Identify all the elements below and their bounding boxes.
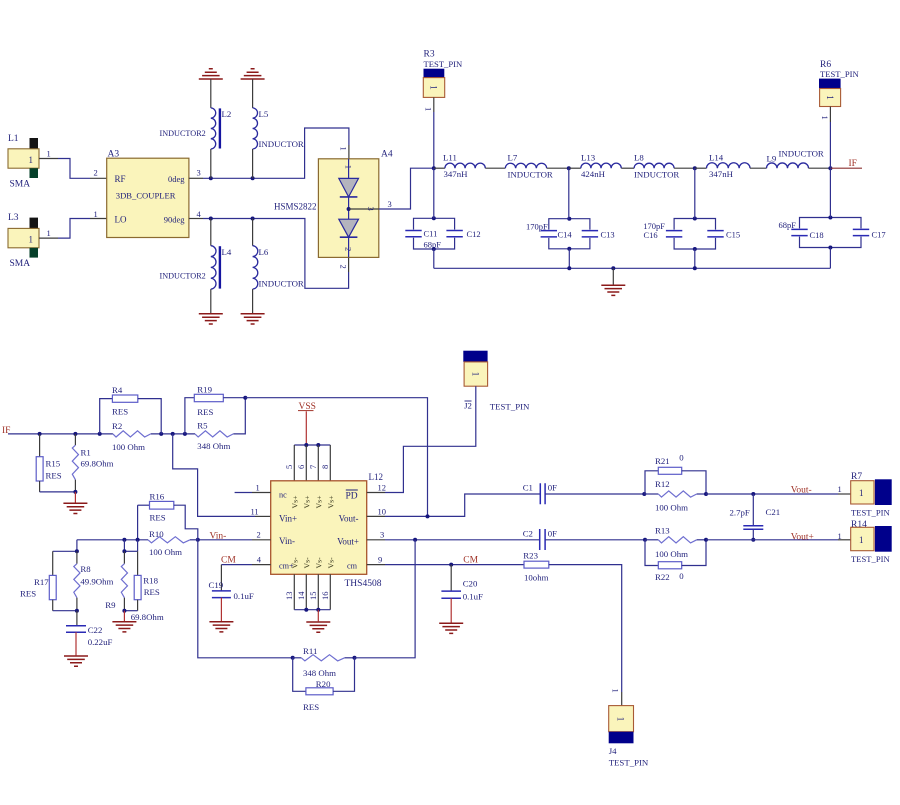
svg-text:1: 1 (615, 717, 625, 722)
pin 1 stub (nc) (235, 482, 271, 492)
inductor L8 INDUCTOR (634, 152, 695, 179)
svg-text:R23: R23 (523, 550, 538, 560)
svg-text:L3: L3 (8, 213, 19, 223)
node R13 right (704, 538, 708, 542)
svg-text:LO: LO (115, 215, 127, 225)
svg-text:7: 7 (308, 465, 318, 469)
svg-text:J2: J2 (464, 401, 472, 411)
svg-text:1: 1 (838, 531, 842, 541)
svg-text:100 Ohm: 100 Ohm (112, 442, 145, 452)
svg-text:R20: R20 (316, 679, 331, 689)
pin 2 wire Vin- (198, 530, 271, 542)
connector L3 (SMA) (8, 213, 39, 269)
ground below C22 (64, 656, 88, 666)
resistor R23 10ohm (523, 550, 549, 582)
svg-text:10ohm: 10ohm (524, 572, 549, 582)
svg-text:1: 1 (429, 85, 439, 90)
net label IF (top) (830, 159, 862, 169)
svg-text:C19: C19 (209, 580, 224, 590)
svg-text:RES: RES (197, 407, 213, 417)
svg-text:INDUCTOR2: INDUCTOR2 (160, 129, 206, 138)
wire R6 to IF node (820, 107, 830, 169)
svg-text:R17: R17 (34, 577, 49, 587)
svg-text:0F: 0F (548, 483, 557, 493)
node IF-R15 (38, 432, 42, 436)
inductor L5 (INDUCTOR) (253, 79, 304, 178)
svg-text:Vout-: Vout- (339, 513, 359, 523)
node filter-2 (567, 166, 571, 170)
svg-text:C20: C20 (463, 579, 478, 589)
svg-text:L14: L14 (709, 152, 724, 162)
test pin R7 (851, 472, 892, 518)
node top of C11/C12 (432, 216, 436, 220)
node C1-R12 left (642, 492, 646, 496)
net label IF (bottom) (2, 426, 40, 436)
node IF-R4b (159, 432, 163, 436)
svg-text:R22: R22 (655, 572, 670, 582)
svg-text:16: 16 (320, 592, 330, 601)
wire R9/R18 rails (122, 540, 137, 554)
svg-text:347nH: 347nH (444, 169, 469, 179)
svg-text:SMA: SMA (10, 259, 31, 269)
pin 11 stub (251, 506, 271, 516)
capacitor C20 0.1uF (441, 565, 483, 623)
resistor R4 RES (100, 385, 162, 434)
svg-text:0: 0 (679, 453, 684, 463)
resistor R1 69.8Ohm (72, 434, 113, 492)
svg-text:2.7pF: 2.7pF (730, 508, 750, 518)
svg-text:TEST_PIN: TEST_PIN (490, 401, 530, 411)
svg-text:1: 1 (469, 372, 479, 377)
pin 12 stub (367, 483, 386, 493)
svg-text:6: 6 (296, 465, 306, 469)
svg-text:Vout+: Vout+ (791, 532, 814, 542)
node Vout+ feedback (413, 538, 417, 542)
node R19-R5 (243, 396, 247, 400)
wire filter-1 to C11 pair (433, 168, 435, 218)
wire IF row (40, 398, 246, 434)
svg-text:C11: C11 (424, 229, 438, 239)
svg-text:L12: L12 (369, 472, 384, 482)
wire frame C11/C12 (414, 218, 455, 249)
svg-text:PD: PD (346, 491, 358, 501)
node R12 right (704, 492, 708, 496)
resistor R13 100 Ohm (645, 525, 706, 559)
svg-text:68pF: 68pF (779, 220, 797, 230)
svg-text:INDUCTOR: INDUCTOR (634, 169, 679, 179)
svg-text:Vs-: Vs- (326, 557, 335, 569)
resistor R19 RES (185, 384, 245, 434)
wire C2 to R13 (545, 539, 645, 541)
wire J2 to pin 12 (385, 386, 476, 492)
inductor L4 (INDUCTOR2) (160, 219, 232, 314)
svg-text:2: 2 (94, 168, 98, 178)
svg-text:Vs+: Vs+ (302, 495, 311, 509)
wire VSS stem (305, 411, 307, 445)
wire C16 pair to bus (694, 249, 696, 268)
svg-text:TEST_PIN: TEST_PIN (851, 508, 890, 518)
svg-text:3: 3 (197, 168, 201, 178)
wire to R17/R8 rail (53, 540, 77, 552)
resistor R10 100 Ohm (77, 529, 198, 557)
resistor R11 348 Ohm (293, 646, 355, 678)
inductor L2 (INDUCTOR2) (160, 79, 232, 178)
inductor L6 (INDUCTOR) (253, 219, 304, 314)
pin stub R7 (838, 493, 851, 495)
svg-text:INDUCTOR: INDUCTOR (259, 279, 304, 289)
svg-text:Vs+: Vs+ (326, 495, 335, 509)
wire Vin+ path (173, 434, 255, 517)
svg-text:3DB_COUPLER: 3DB_COUPLER (116, 190, 176, 200)
pin 9 wire cm (367, 554, 524, 565)
diode D2 of A4 (339, 197, 359, 258)
svg-text:Vin-: Vin- (279, 536, 295, 546)
test pin R6 (819, 60, 859, 107)
svg-text:RES: RES (20, 589, 36, 599)
IC bottom pin stubs 13-16 (284, 574, 331, 609)
test pin J2 (463, 351, 530, 412)
wire L1 pin 1 to coupler pin 2 (39, 149, 107, 179)
connector L1 (SMA) (8, 134, 39, 190)
svg-text:9: 9 (378, 554, 382, 564)
svg-text:1: 1 (611, 689, 621, 693)
svg-text:THS4508: THS4508 (345, 579, 382, 589)
capacitor C21 2.7pF (730, 494, 781, 540)
resistor R12 100 Ohm (644, 479, 706, 513)
svg-text:1: 1 (29, 155, 34, 165)
resistor R18 RES (134, 551, 160, 610)
svg-text:C1: C1 (523, 483, 533, 493)
svg-text:170pF: 170pF (526, 221, 548, 231)
resistor R21 0 (645, 453, 706, 495)
svg-text:R15: R15 (46, 459, 61, 469)
net label VSS (298, 402, 316, 412)
svg-text:1: 1 (339, 147, 349, 151)
wire frame C16/C15 (674, 219, 715, 250)
wire R5 node to Vout- node (245, 398, 427, 517)
svg-text:12: 12 (378, 483, 387, 493)
node C21 top (751, 492, 755, 496)
svg-text:INDUCTOR: INDUCTOR (779, 148, 824, 158)
svg-text:1: 1 (94, 209, 98, 219)
svg-text:R18: R18 (143, 576, 158, 586)
node bottom of C18/C17 (828, 246, 832, 250)
svg-text:C18: C18 (810, 230, 824, 240)
wire VSS rail (294, 443, 330, 447)
capacitor C11 (405, 231, 421, 237)
ground above L5 (241, 69, 265, 79)
node R10-R9 (122, 538, 126, 542)
node pin4-L4 (209, 217, 213, 221)
svg-text:Vs-: Vs- (290, 557, 299, 569)
node filter-3 (693, 166, 697, 170)
node IF-R4a (98, 432, 102, 436)
svg-text:SMA: SMA (10, 180, 31, 190)
node pin3-L2 (209, 176, 213, 180)
svg-text:10: 10 (378, 506, 387, 516)
svg-text:L6: L6 (259, 247, 269, 257)
diode pack A4 HSMS2822 (274, 147, 393, 269)
inductor L9 INDUCTOR (767, 148, 831, 168)
wire R11 row to Vout+ node (355, 540, 416, 658)
resistor R15 RES (36, 434, 62, 492)
node R8 top (75, 549, 79, 553)
ground above L2 (199, 69, 223, 79)
wire C18 pair to bus (829, 248, 831, 269)
ground below C19 (209, 622, 233, 632)
test pin R3 (423, 50, 463, 98)
capacitor C14 (541, 231, 557, 237)
wire coupler pin 4 row (189, 209, 349, 288)
svg-text:R19: R19 (197, 384, 212, 394)
resistor R8 49.9Ohm (74, 551, 114, 610)
wire C14 pair to bus (568, 249, 570, 268)
node bottom of C14/C13 (567, 247, 571, 251)
svg-text:348 Ohm: 348 Ohm (303, 668, 336, 678)
pin stub R14 (838, 539, 851, 541)
svg-text:2: 2 (257, 530, 261, 540)
svg-text:Vout-: Vout- (791, 485, 812, 495)
svg-text:1: 1 (256, 482, 260, 492)
inductor L13 424nH (569, 152, 634, 179)
resistor R16 RES (138, 491, 198, 539)
svg-text:cm: cm (347, 562, 358, 571)
inductor L14 347nH (695, 152, 767, 179)
svg-text:C2: C2 (523, 529, 533, 539)
capacitor C2 0F (523, 529, 557, 551)
svg-text:3: 3 (388, 199, 392, 209)
diode D1 of A4 (339, 159, 359, 197)
ground below L6 (241, 314, 265, 324)
svg-text:3: 3 (380, 530, 384, 540)
svg-text:L7: L7 (508, 152, 518, 162)
svg-text:L11: L11 (443, 152, 457, 162)
svg-text:INDUCTOR: INDUCTOR (259, 139, 304, 149)
svg-text:L1: L1 (8, 134, 19, 144)
svg-text:4: 4 (197, 209, 202, 219)
node top of C16/C15 (693, 217, 697, 221)
svg-text:TEST_PIN: TEST_PIN (609, 758, 649, 768)
resistor R9 69.8Ohm (105, 551, 164, 622)
op-amp U1 THS4508 (271, 472, 383, 589)
svg-text:TEST_PIN: TEST_PIN (424, 59, 463, 69)
wire bus to ground (612, 268, 614, 284)
svg-text:8: 8 (320, 465, 330, 469)
svg-text:0: 0 (679, 571, 684, 581)
svg-text:L4: L4 (222, 247, 232, 257)
svg-text:347nH: 347nH (709, 169, 734, 179)
svg-text:C16: C16 (644, 230, 658, 240)
svg-text:49.9Ohm: 49.9Ohm (80, 577, 113, 587)
svg-text:L8: L8 (634, 152, 644, 162)
svg-text:RES: RES (112, 407, 128, 417)
svg-text:R5: R5 (197, 420, 208, 430)
wire IF node to C18 pair (829, 168, 831, 217)
svg-text:0F: 0F (548, 529, 557, 539)
svg-text:1: 1 (47, 228, 51, 238)
svg-text:3: 3 (366, 207, 376, 211)
svg-text:RES: RES (144, 587, 160, 597)
svg-text:424nH: 424nH (581, 169, 606, 179)
capacitor C16 (666, 231, 682, 237)
svg-text:69.8Ohm: 69.8Ohm (81, 459, 114, 469)
svg-text:C17: C17 (872, 230, 886, 240)
svg-text:HSMS2822: HSMS2822 (274, 202, 317, 212)
wire R12 to C21/Vout- (706, 493, 838, 495)
svg-text:C22: C22 (88, 625, 103, 635)
wire frame C18/C17 (800, 218, 862, 248)
svg-text:5: 5 (284, 465, 294, 469)
node Vout- feedback (426, 514, 430, 518)
svg-text:CM: CM (221, 556, 236, 566)
wire filter-2 to C14 pair (568, 168, 571, 219)
net label Vout- (791, 484, 842, 496)
svg-text:R4: R4 (112, 385, 123, 395)
ground below L4 (199, 314, 223, 324)
node cm-C20 (449, 563, 453, 567)
svg-text:1: 1 (47, 149, 51, 159)
svg-text:C14: C14 (558, 230, 573, 240)
capacitor C1 0F (523, 483, 557, 505)
resistor R2 100 Ohm (112, 421, 151, 452)
wire IC bottom rail (294, 608, 330, 622)
capacitor C19 0.1uF (209, 565, 254, 621)
svg-text:100 Ohm: 100 Ohm (655, 503, 688, 513)
capacitor C15 (707, 231, 723, 237)
svg-text:R21: R21 (655, 456, 670, 466)
svg-text:1: 1 (825, 95, 835, 100)
svg-text:R8: R8 (80, 564, 91, 574)
node C21 bottom (751, 538, 755, 542)
svg-text:RES: RES (303, 702, 319, 712)
svg-text:Vout+: Vout+ (337, 536, 359, 546)
svg-text:11: 11 (251, 506, 259, 516)
node Vin- R11 drop (196, 538, 200, 542)
svg-text:C12: C12 (467, 229, 481, 239)
svg-text:L5: L5 (259, 109, 269, 119)
svg-text:INDUCTOR2: INDUCTOR2 (160, 272, 206, 281)
wire coupler pin 3 row (189, 128, 349, 178)
wire Vin- to R11 row (198, 540, 293, 658)
ground below C20 (439, 623, 463, 633)
ground below R1 (63, 503, 87, 513)
resistor R17 RES (20, 551, 56, 610)
pin 4 wire CM (221, 554, 271, 565)
svg-text:R13: R13 (655, 525, 670, 535)
coupler A3 3DB_COUPLER (107, 149, 189, 237)
svg-text:Vs-: Vs- (314, 557, 323, 569)
svg-text:15: 15 (308, 592, 318, 601)
svg-text:14: 14 (296, 591, 306, 600)
test pin R14 (851, 520, 892, 564)
svg-text:100 Ohm: 100 Ohm (655, 549, 688, 559)
svg-text:0.1uF: 0.1uF (463, 592, 483, 602)
wire R23 to J4 (549, 565, 622, 706)
svg-text:C21: C21 (766, 507, 781, 517)
svg-text:1: 1 (859, 535, 864, 545)
node IF-top (828, 166, 832, 170)
wire R9/R18 bottoms (122, 609, 137, 621)
ground of filter bus (601, 285, 625, 295)
svg-text:13: 13 (284, 592, 294, 601)
svg-text:A4: A4 (381, 150, 393, 160)
wire C11 pair to bus (433, 249, 435, 268)
svg-text:1: 1 (859, 488, 864, 498)
svg-text:C15: C15 (726, 230, 740, 240)
svg-text:0.1uF: 0.1uF (234, 591, 254, 601)
svg-text:J4: J4 (609, 746, 617, 756)
wire R17/R8 bottoms (53, 609, 79, 613)
node top of C14/C13 (567, 217, 571, 221)
ground below R9 (112, 622, 136, 632)
svg-text:1: 1 (820, 116, 830, 120)
svg-text:nc: nc (279, 490, 287, 499)
svg-text:R2: R2 (112, 421, 122, 431)
wire R3 to filter node (424, 97, 434, 168)
svg-text:1: 1 (424, 107, 434, 111)
svg-text:R9: R9 (105, 600, 116, 610)
node pin4-L6 (251, 217, 255, 221)
svg-text:1: 1 (838, 484, 842, 494)
svg-text:IF: IF (849, 159, 857, 169)
svg-text:0deg: 0deg (168, 174, 185, 184)
svg-text:RES: RES (150, 513, 166, 523)
svg-text:TEST_PIN: TEST_PIN (820, 69, 859, 79)
node R11 right (353, 656, 357, 660)
wire C1 to R12 (545, 493, 644, 495)
svg-text:Vs+: Vs+ (314, 495, 323, 509)
svg-text:100 Ohm: 100 Ohm (149, 547, 182, 557)
node R10-R16 (136, 538, 140, 542)
node pin3-L5 (251, 176, 255, 180)
node R11 left (291, 656, 295, 660)
IC top pin stubs 5-8 (284, 445, 331, 481)
node top of C18/C17 (828, 216, 832, 220)
svg-text:INDUCTOR: INDUCTOR (508, 169, 553, 179)
node C2-R13 left (643, 538, 647, 542)
wire R15/R1 bottoms (40, 490, 78, 503)
resistor R5 348 Ohm (195, 420, 233, 451)
resistor R20 RES (293, 658, 355, 712)
svg-text:0.22uF: 0.22uF (88, 637, 113, 647)
svg-text:4: 4 (257, 554, 262, 564)
svg-text:RES: RES (46, 471, 62, 481)
capacitor C13 (582, 231, 598, 237)
capacitor C12 (446, 231, 462, 237)
pin 10 wire Vout- (367, 494, 541, 516)
node bottom of C16/C15 (693, 247, 697, 251)
ground below IC (306, 622, 330, 632)
svg-text:69.8Ohm: 69.8Ohm (131, 612, 164, 622)
svg-text:2: 2 (339, 265, 349, 269)
svg-text:C13: C13 (601, 230, 615, 240)
svg-text:Vin-: Vin- (210, 532, 227, 542)
wire R13 to Vout+ (706, 539, 838, 541)
node IF-Vin+ (171, 432, 175, 436)
svg-text:L13: L13 (581, 152, 596, 162)
svg-text:Vin+: Vin+ (279, 513, 297, 523)
svg-text:90deg: 90deg (164, 215, 186, 225)
capacitor C18 (791, 229, 807, 235)
wire filter-3 to C16 pair (694, 168, 696, 218)
svg-text:348 Ohm: 348 Ohm (197, 441, 230, 451)
svg-text:L9: L9 (767, 153, 777, 163)
svg-text:R12: R12 (655, 479, 670, 489)
svg-text:R11: R11 (303, 646, 317, 656)
wire L3 pin 1 to coupler pin 1 (39, 209, 107, 238)
pin 3 wire Vout+ (367, 530, 540, 540)
test pin J4 (609, 706, 649, 768)
